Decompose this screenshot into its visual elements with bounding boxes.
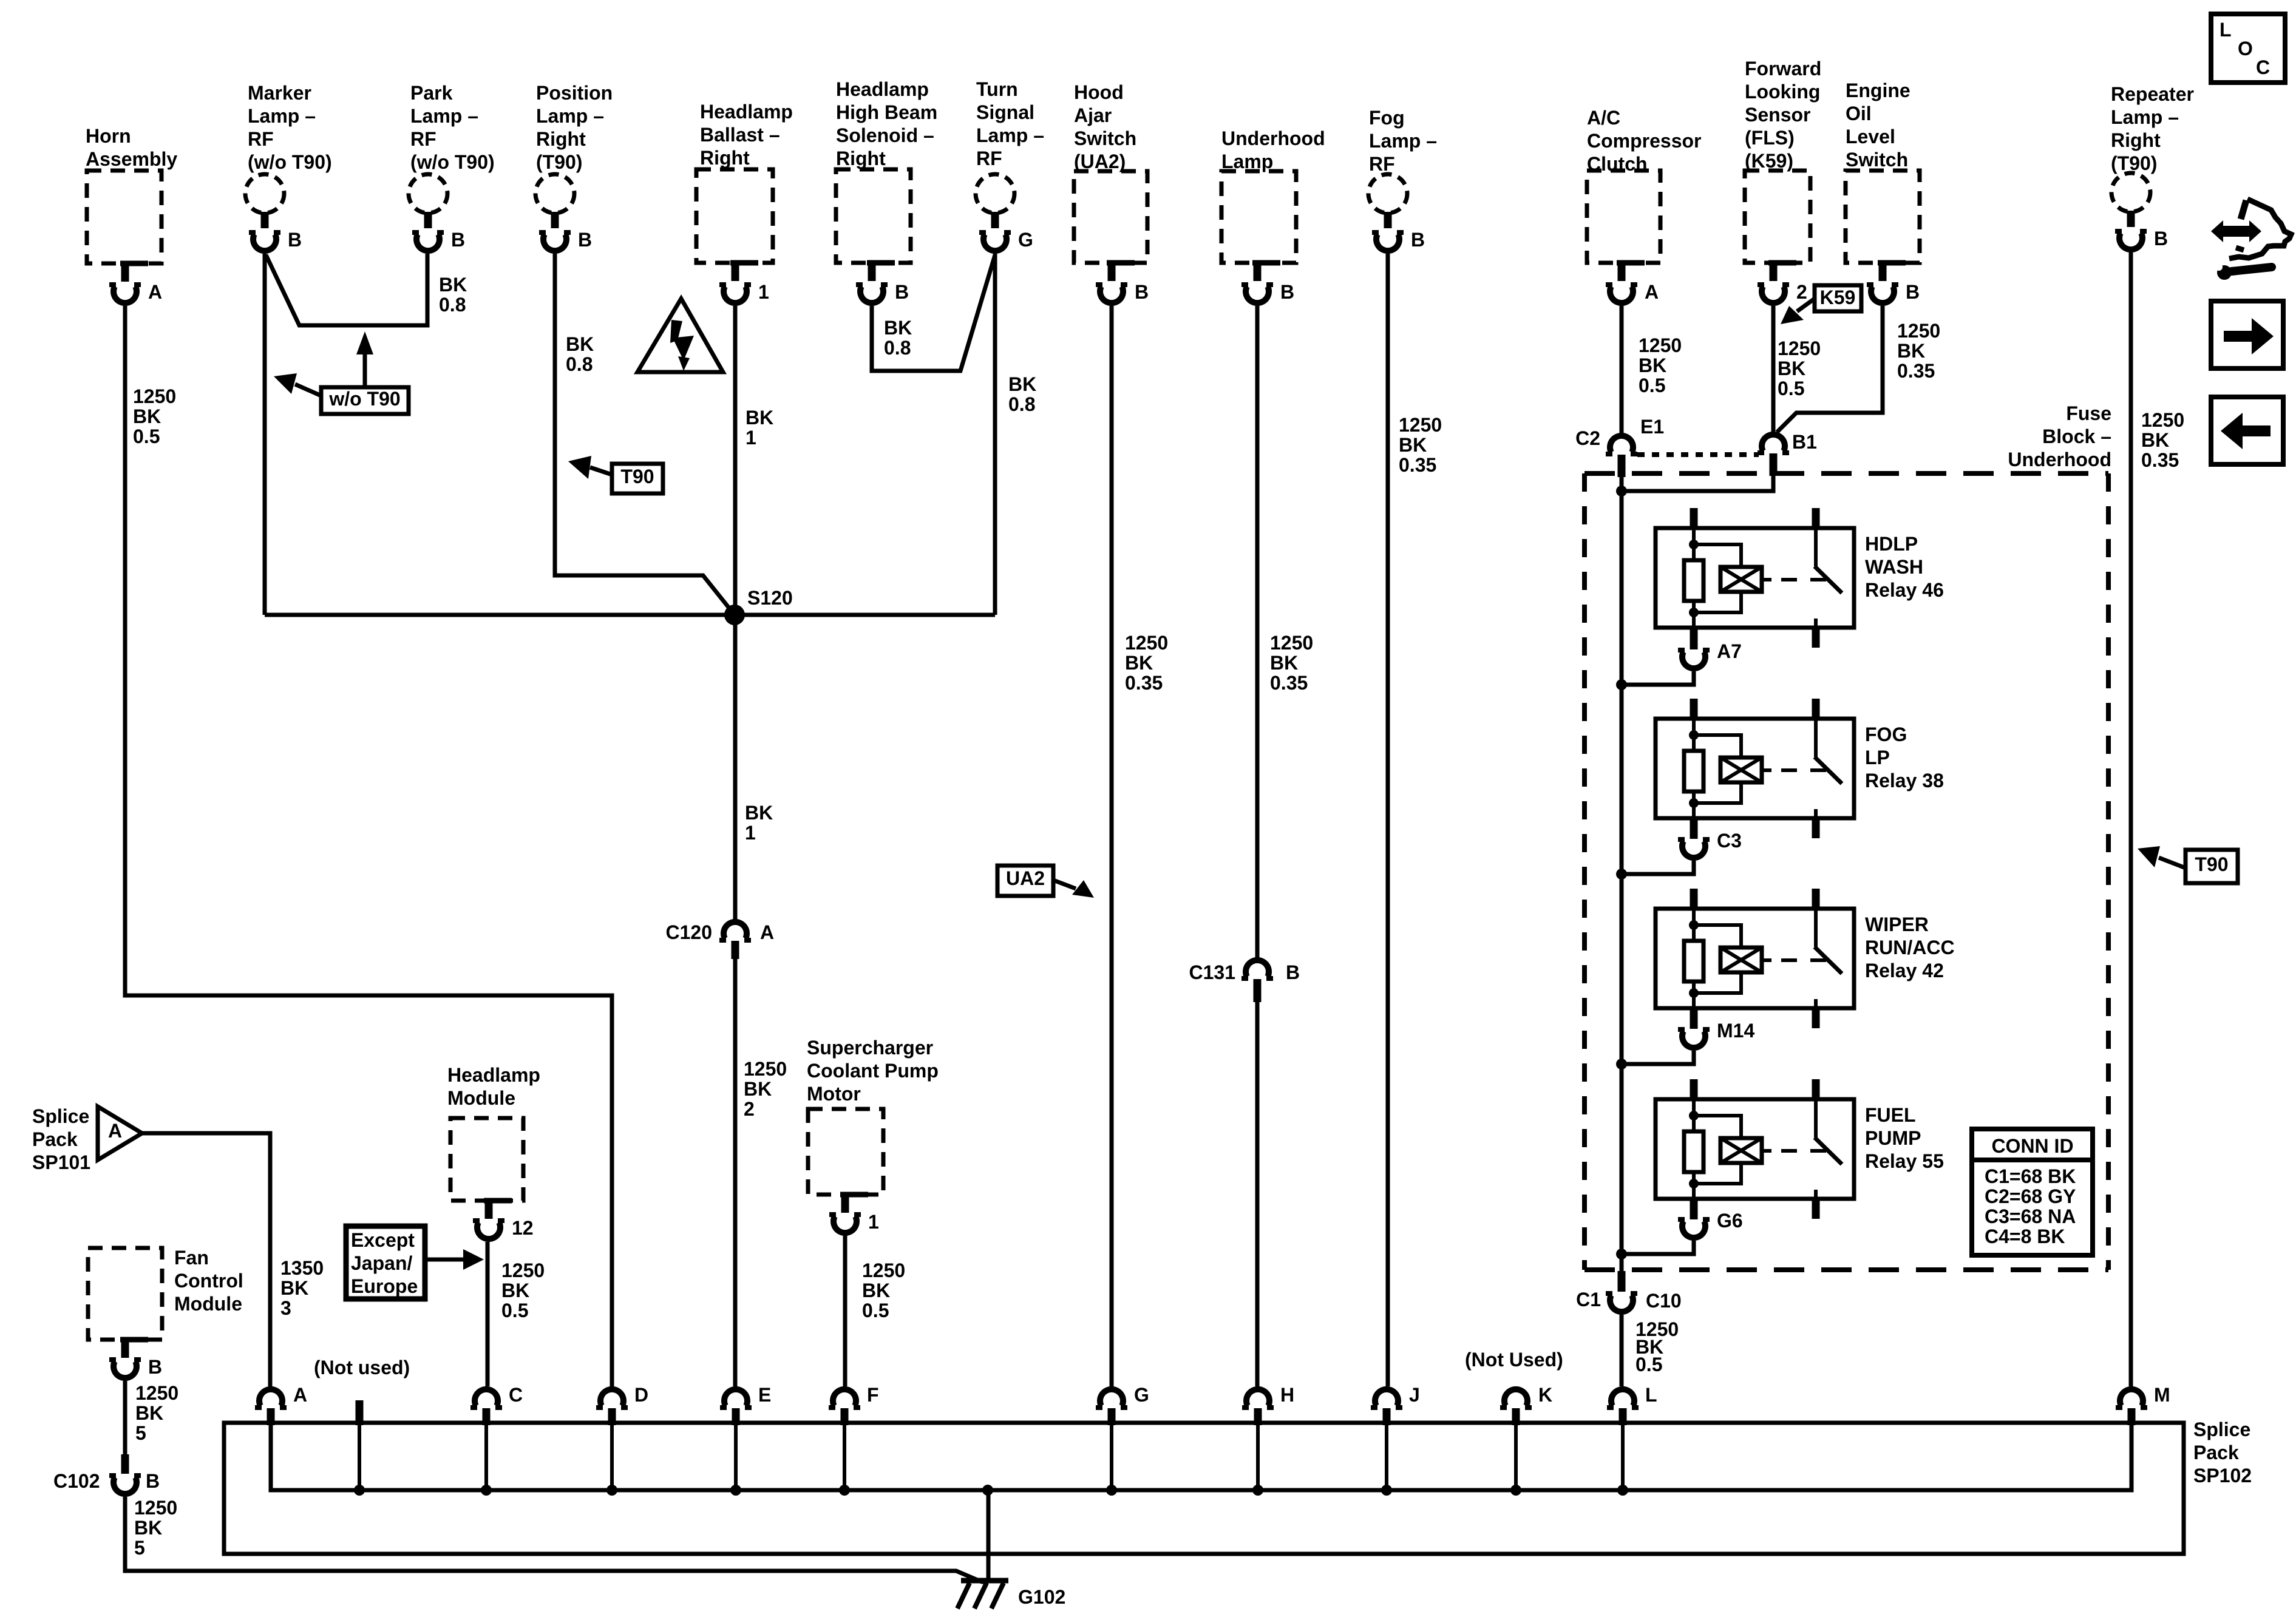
wire label 1250 BK 0.35 (hood ajar) (1125, 632, 1168, 694)
svg-text:B: B (451, 229, 465, 251)
svg-text:0.5: 0.5 (1635, 1354, 1662, 1375)
svg-text:B: B (1906, 281, 1920, 303)
svg-text:J: J (1409, 1384, 1420, 1406)
wire label 1250 BK 5 (lower) (134, 1497, 177, 1559)
svg-text:0.5: 0.5 (133, 425, 160, 447)
svg-text:B: B (578, 229, 592, 251)
svg-text:1250: 1250 (1778, 337, 1821, 359)
svg-text:0.5: 0.5 (1639, 375, 1665, 396)
svg-text:B: B (2154, 228, 2168, 249)
svg-text:BK: BK (566, 333, 594, 355)
connector C102 pin B (53, 1454, 160, 1494)
svg-text:Park: Park (410, 82, 453, 104)
svg-text:T90: T90 (620, 466, 654, 487)
svg-text:Motor: Motor (807, 1083, 861, 1105)
svg-text:A7: A7 (1717, 640, 1742, 662)
svg-text:1250: 1250 (744, 1058, 787, 1080)
svg-text:C1: C1 (1576, 1289, 1601, 1310)
hood ajar switch (UA2) (1074, 81, 1149, 303)
arrow K59 to FLS wire (1781, 299, 1815, 324)
svg-text:Clutch: Clutch (1587, 153, 1648, 175)
arrow w/o T90 to marker wire (274, 373, 321, 396)
svg-text:0.35: 0.35 (1897, 360, 1935, 382)
relay 38 (FOG LP) (1656, 699, 1944, 838)
wire label 1250 BK 5 (upper) (135, 1382, 178, 1444)
svg-text:B: B (148, 1356, 162, 1378)
wire oil level switch B to B1 (1777, 306, 1883, 432)
svg-text:BK: BK (1270, 652, 1298, 674)
splice pack connector H (1242, 1384, 1294, 1496)
svg-text:B: B (1286, 961, 1300, 983)
position lamp right (T90) (535, 82, 613, 251)
svg-text:0.35: 0.35 (1399, 454, 1436, 476)
forward looking sensor (FLS) (K59) (1745, 58, 1821, 303)
svg-text:Module: Module (174, 1293, 242, 1315)
svg-text:Marker: Marker (248, 82, 311, 104)
wire label 1250 BK 0.5 (supercharger) (862, 1259, 905, 1321)
connector G6 (1678, 1199, 1743, 1238)
svg-text:Hood: Hood (1074, 81, 1124, 103)
svg-text:BK: BK (1897, 340, 1925, 362)
wire label 1250 BK 0.5 (A/C) (1639, 334, 1682, 396)
K59 option box (1815, 285, 1861, 311)
svg-text:B: B (1411, 229, 1425, 251)
wire label BK 0.8 (park lamp) (439, 274, 467, 316)
svg-text:BK: BK (280, 1277, 308, 1299)
svg-text:BK: BK (862, 1280, 890, 1301)
wire underhood lamp B to C131 (1255, 306, 1260, 957)
wire label 1250 BK 0.35 (oil) (1897, 320, 1940, 382)
svg-text:(T90): (T90) (2111, 152, 2157, 174)
svg-text:1250: 1250 (501, 1259, 545, 1281)
wire ballast 1 to C120 (through S120) (733, 306, 738, 919)
svg-text:(Not Used): (Not Used) (1465, 1349, 1563, 1371)
svg-text:Right: Right (836, 147, 886, 169)
svg-text:C: C (2256, 56, 2270, 78)
svg-text:G: G (1018, 229, 1033, 251)
supercharger coolant pump motor (807, 1037, 939, 1233)
wire label 1250 BK 0.5 (C1) (1635, 1318, 1679, 1375)
svg-text:Lamp: Lamp (1221, 151, 1273, 172)
svg-text:BK: BK (745, 802, 773, 824)
headlamp high beam solenoid right (836, 78, 937, 303)
svg-text:0.5: 0.5 (1778, 378, 1804, 399)
svg-text:B: B (146, 1470, 160, 1492)
wire B1 down to main node (1622, 476, 1773, 491)
wire SP101 to splice pack connector A (142, 1133, 270, 1386)
svg-text:(K59): (K59) (1745, 150, 1793, 172)
headlamp module (447, 1064, 540, 1239)
marker lamp RF (w/o T90) (245, 82, 332, 251)
connector C2 (fuse block cavity E1) (1575, 416, 1664, 477)
splice pack connector M (2116, 1384, 2170, 1425)
svg-text:C4=8 BK: C4=8 BK (1985, 1225, 2065, 1247)
wire supercharger 1 to splice pack connector F (843, 1236, 847, 1386)
wire M14 to main vertical (1616, 1051, 1694, 1070)
svg-text:RF: RF (410, 128, 436, 150)
svg-text:(FLS): (FLS) (1745, 127, 1795, 149)
svg-text:Engine: Engine (1846, 80, 1911, 101)
wire fuse block main vertical (C2 to C1) (1620, 477, 1624, 1271)
connector C1 / C10 (1576, 1271, 1682, 1312)
A/C compressor clutch (1587, 107, 1702, 303)
except japan/europe option box (346, 1226, 425, 1299)
svg-text:D: D (634, 1384, 648, 1406)
svg-text:Splice: Splice (2193, 1419, 2250, 1440)
arrow UA2 to hood ajar wire (1053, 880, 1094, 898)
wire fan control B to C102 (123, 1381, 127, 1454)
svg-text:C2: C2 (1575, 427, 1600, 449)
svg-text:1: 1 (758, 281, 769, 303)
svg-text:C120: C120 (666, 921, 713, 943)
svg-text:G: G (1134, 1384, 1149, 1406)
svg-text:(Not used): (Not used) (314, 1357, 410, 1378)
svg-text:Lamp –: Lamp – (248, 105, 316, 127)
wire solenoid B to turn signal wire (872, 255, 995, 371)
wire label 1250 BK 0.5 (horn) (133, 385, 176, 447)
svg-text:Fuse: Fuse (2066, 402, 2111, 424)
svg-text:1250: 1250 (862, 1259, 905, 1281)
wire A/C clutch A to C2 (1620, 306, 1624, 433)
svg-text:C3: C3 (1717, 830, 1742, 852)
svg-text:C3=68 NA: C3=68 NA (1985, 1205, 2076, 1227)
wire label BK 0.8 (solenoid) (884, 317, 912, 359)
svg-text:Right: Right (536, 128, 586, 150)
LOC legend box (2211, 14, 2285, 83)
label (Not Used) (1465, 1349, 1563, 1371)
svg-text:BK: BK (1778, 358, 1805, 379)
svg-text:Japan/: Japan/ (351, 1252, 412, 1274)
svg-text:1: 1 (746, 427, 756, 449)
svg-text:Relay 46: Relay 46 (1865, 579, 1944, 601)
svg-text:1250: 1250 (134, 1497, 177, 1519)
fog lamp RF (1368, 107, 1437, 251)
svg-text:B1: B1 (1792, 431, 1817, 453)
svg-text:Switch: Switch (1074, 127, 1136, 149)
splice pack connector D (596, 1384, 648, 1496)
svg-text:Block –: Block – (2042, 425, 2111, 447)
svg-text:Module: Module (447, 1087, 515, 1109)
w/o T90 option box (321, 387, 409, 414)
repeater lamp right (T90) (2111, 83, 2194, 249)
body repair icon (1432, 199, 2291, 554)
arrow except box to headlamp module wire (425, 1249, 484, 1270)
svg-text:Level: Level (1846, 126, 1895, 147)
UA2 option box (997, 866, 1053, 896)
svg-text:UA2: UA2 (1006, 867, 1045, 889)
splice pack connector F (829, 1384, 879, 1496)
svg-text:C10: C10 (1646, 1290, 1682, 1312)
wire turn signal G to S120 (993, 254, 997, 615)
svg-text:(w/o T90): (w/o T90) (410, 151, 495, 173)
svg-text:Coolant Pump: Coolant Pump (807, 1060, 939, 1082)
wire C102 to ground G102 (125, 1497, 988, 1582)
relay 42 (WIPER RUN/ACC) (1656, 889, 1955, 1028)
svg-text:Solenoid –: Solenoid – (836, 124, 934, 146)
splice pack connector J (1371, 1384, 1420, 1496)
svg-text:0.8: 0.8 (439, 294, 466, 316)
svg-text:PUMP: PUMP (1865, 1127, 1921, 1149)
svg-text:BK: BK (744, 1078, 772, 1100)
svg-text:(w/o T90): (w/o T90) (248, 151, 332, 173)
svg-text:BK: BK (1639, 354, 1666, 376)
connector M14 (1678, 1009, 1754, 1048)
wire A7 to main vertical (1616, 671, 1694, 690)
svg-text:B: B (895, 281, 909, 303)
arrow w/o T90 to wire above (356, 331, 373, 387)
svg-text:G6: G6 (1717, 1210, 1743, 1232)
svg-text:CONN ID: CONN ID (1991, 1135, 2073, 1157)
svg-text:Forward: Forward (1745, 58, 1821, 80)
svg-text:0.35: 0.35 (1125, 672, 1163, 694)
svg-text:SP101: SP101 (32, 1151, 90, 1173)
svg-text:Right: Right (2111, 129, 2161, 151)
connector B1 (1758, 431, 1817, 476)
svg-text:Looking: Looking (1745, 81, 1820, 103)
underhood lamp (1221, 127, 1325, 303)
svg-text:0.8: 0.8 (884, 337, 911, 359)
svg-text:S120: S120 (747, 587, 793, 609)
svg-text:Ballast –: Ballast – (700, 124, 780, 146)
svg-text:Europe: Europe (351, 1275, 418, 1297)
wire hood ajar B to splice pack connector G (1110, 306, 1114, 1386)
svg-text:F: F (867, 1384, 879, 1406)
svg-text:Lamp –: Lamp – (1369, 130, 1437, 152)
svg-text:G102: G102 (1018, 1586, 1065, 1608)
svg-text:SP102: SP102 (2193, 1465, 2252, 1486)
svg-text:Lamp –: Lamp – (410, 105, 478, 127)
svg-text:1: 1 (868, 1211, 879, 1233)
svg-text:C2=68 GY: C2=68 GY (1985, 1185, 2076, 1207)
splice pack connector C (470, 1384, 523, 1496)
left arrow legend box (2211, 397, 2283, 464)
svg-text:(T90): (T90) (536, 151, 582, 173)
wire label BK 1 (lower) (745, 802, 773, 844)
svg-text:1250: 1250 (1897, 320, 1940, 342)
wire repeater lamp B to splice pack connector M (2129, 253, 2133, 1386)
svg-text:0.35: 0.35 (1270, 672, 1308, 694)
svg-text:C131: C131 (1189, 961, 1236, 983)
svg-text:Signal: Signal (976, 101, 1034, 123)
wire C131 to splice pack connector H (1255, 1002, 1260, 1386)
wire marker lamp B to S120 (263, 254, 267, 615)
svg-text:2: 2 (1796, 281, 1807, 303)
wire fog lamp B to splice pack connector J (1386, 254, 1390, 1386)
wire label BK 1 (upper) (746, 407, 773, 449)
svg-text:C102: C102 (53, 1470, 100, 1492)
svg-text:Repeater: Repeater (2111, 83, 2194, 105)
wire label BK 0.8 (turn signal) (1008, 373, 1036, 415)
svg-text:L: L (2220, 19, 2232, 41)
svg-text:BK: BK (439, 274, 467, 296)
wire label 1250 BK 0.5 (headlamp module) (501, 1259, 545, 1321)
svg-text:RUN/ACC: RUN/ACC (1865, 937, 1955, 958)
svg-text:Except: Except (351, 1229, 415, 1251)
svg-text:BK: BK (1125, 652, 1153, 674)
svg-text:Headlamp: Headlamp (836, 78, 929, 100)
svg-text:Switch: Switch (1846, 149, 1908, 171)
splice pack connector G (1096, 1384, 1149, 1496)
svg-text:0.8: 0.8 (1008, 393, 1035, 415)
svg-text:O: O (2238, 38, 2253, 59)
turn signal lamp RF (976, 78, 1044, 251)
wire label 1250 BK 0.35 (underhood) (1270, 632, 1313, 694)
svg-text:2: 2 (744, 1098, 755, 1120)
svg-text:High Beam: High Beam (836, 101, 937, 123)
svg-text:BK: BK (2141, 429, 2169, 451)
svg-text:A: A (108, 1120, 122, 1142)
svg-text:K: K (1538, 1384, 1552, 1406)
svg-text:M14: M14 (1717, 1020, 1754, 1042)
svg-text:BK: BK (501, 1280, 529, 1301)
svg-text:BK: BK (1008, 373, 1036, 395)
svg-text:B: B (288, 229, 302, 251)
svg-text:0.5: 0.5 (501, 1300, 528, 1321)
svg-text:A/C: A/C (1587, 107, 1620, 129)
svg-text:5: 5 (135, 1422, 146, 1444)
splice pack SP101 (32, 1105, 142, 1173)
svg-text:Underhood: Underhood (2008, 449, 2111, 470)
svg-text:A: A (760, 921, 774, 943)
svg-text:Relay 55: Relay 55 (1865, 1150, 1944, 1172)
wire C120 to splice pack connector E (733, 959, 738, 1386)
svg-text:Compressor: Compressor (1587, 130, 1702, 152)
svg-text:3: 3 (280, 1297, 291, 1319)
wire label 1350 BK 3 (280, 1257, 324, 1319)
svg-text:1: 1 (745, 822, 756, 844)
svg-text:Lamp –: Lamp – (976, 124, 1044, 146)
svg-text:E: E (758, 1384, 771, 1406)
splice pack unused stub B (354, 1400, 365, 1496)
svg-text:LP: LP (1865, 747, 1890, 768)
svg-text:Position: Position (536, 82, 613, 104)
svg-text:0.8: 0.8 (566, 353, 593, 375)
svg-text:K59: K59 (1820, 286, 1856, 308)
svg-text:Sensor: Sensor (1745, 104, 1810, 126)
svg-text:Ajar: Ajar (1074, 104, 1112, 126)
svg-text:Assembly: Assembly (86, 148, 177, 170)
svg-text:1250: 1250 (133, 385, 176, 407)
svg-text:0.35: 0.35 (2141, 449, 2179, 471)
wire FLS 2 to B1 (1771, 306, 1776, 432)
svg-text:Pack: Pack (2193, 1442, 2239, 1463)
right arrow legend box (2211, 301, 2283, 368)
svg-text:BK: BK (133, 405, 161, 427)
svg-text:0.5: 0.5 (862, 1300, 889, 1321)
wire S120 horizontal bus (265, 613, 995, 617)
svg-text:Underhood: Underhood (1221, 127, 1325, 149)
arrow T90 to repeater wire (2138, 846, 2186, 868)
svg-text:H: H (1280, 1384, 1294, 1406)
fan control module (88, 1247, 243, 1378)
wire C3 to main vertical (1616, 861, 1694, 880)
svg-text:1250: 1250 (2141, 409, 2184, 431)
splice pack SP102 outline (224, 1423, 2184, 1554)
svg-text:C1=68 BK: C1=68 BK (1985, 1165, 2076, 1187)
svg-text:12: 12 (512, 1217, 534, 1239)
dotted link C2 to B1 (1637, 452, 1759, 457)
svg-text:A: A (293, 1384, 307, 1406)
svg-text:1250: 1250 (1125, 632, 1168, 654)
svg-text:Horn: Horn (86, 125, 131, 147)
svg-text:Headlamp: Headlamp (447, 1064, 540, 1086)
svg-text:(UA2): (UA2) (1074, 151, 1126, 172)
connector C120 pin A (666, 921, 775, 959)
svg-text:1250: 1250 (1639, 334, 1682, 356)
svg-text:Oil: Oil (1846, 103, 1872, 124)
svg-text:Headlamp: Headlamp (700, 101, 793, 123)
svg-text:1250: 1250 (1399, 414, 1442, 436)
wire G6 to main vertical (1616, 1241, 1694, 1259)
engine oil level switch (1846, 80, 1920, 303)
fuse block underhood dashed border (1584, 473, 2108, 1270)
svg-text:Relay 42: Relay 42 (1865, 960, 1944, 981)
svg-text:L: L (1645, 1384, 1657, 1406)
wire label 1250 BK 0.5 (FLS) (1778, 337, 1821, 399)
svg-text:Pack: Pack (32, 1128, 78, 1150)
wire label 1250 BK 0.35 (fog) (1399, 414, 1442, 476)
park lamp RF (w/o T90) (409, 82, 495, 251)
wire marker lamp B to park lamp B (266, 254, 427, 325)
svg-text:Turn: Turn (976, 78, 1018, 100)
T90 option box (right) (2186, 850, 2238, 883)
arrow T90 to position lamp wire (568, 456, 612, 479)
svg-text:Lamp –: Lamp – (2111, 106, 2179, 128)
svg-text:Control: Control (174, 1270, 243, 1292)
svg-text:Fog: Fog (1369, 107, 1405, 129)
svg-text:E1: E1 (1640, 416, 1664, 438)
svg-text:5: 5 (134, 1537, 145, 1559)
wire C1 to splice pack connector L (1620, 1315, 1624, 1386)
label (Not used) (314, 1357, 410, 1378)
ground G102 (957, 1485, 1065, 1609)
svg-text:Supercharger: Supercharger (807, 1037, 933, 1059)
svg-text:BK: BK (135, 1402, 163, 1424)
svg-text:Splice: Splice (32, 1105, 89, 1127)
svg-text:A: A (148, 281, 162, 303)
svg-text:BK: BK (884, 317, 912, 339)
splice pack connector A (255, 1384, 307, 1425)
relay 46 (HDLP WASH) (1656, 508, 1944, 648)
svg-text:w/o T90: w/o T90 (328, 388, 400, 410)
svg-text:B: B (1280, 281, 1294, 303)
svg-text:A: A (1645, 281, 1659, 303)
relay 55 (FUEL PUMP) (1656, 1079, 1944, 1219)
T90 option box (left) (612, 464, 663, 493)
wire position lamp B to S120 (555, 254, 735, 615)
svg-text:1250: 1250 (135, 1382, 178, 1404)
svg-text:T90: T90 (2195, 853, 2228, 875)
svg-text:RF: RF (976, 147, 1002, 169)
svg-text:FUEL: FUEL (1865, 1104, 1916, 1126)
svg-text:RF: RF (248, 128, 274, 150)
wire horn A to splice pack connector D (125, 306, 612, 1386)
splice pack connector E (720, 1384, 771, 1496)
svg-text:1250: 1250 (1270, 632, 1313, 654)
horn assembly (86, 125, 177, 303)
svg-text:Relay 38: Relay 38 (1865, 770, 1944, 792)
svg-text:C: C (509, 1384, 523, 1406)
splice pack connector K (1500, 1384, 1552, 1496)
connector A7 (1678, 629, 1742, 668)
svg-text:RF: RF (1369, 153, 1395, 175)
wire label 1250 BK 0.35 (repeater) (2141, 409, 2184, 471)
node S120 (724, 587, 793, 625)
svg-text:BK: BK (746, 407, 773, 429)
splice pack SP102 label (2193, 1419, 2252, 1486)
junction dot B1 join (1616, 486, 1627, 497)
svg-text:FOG: FOG (1865, 724, 1907, 745)
